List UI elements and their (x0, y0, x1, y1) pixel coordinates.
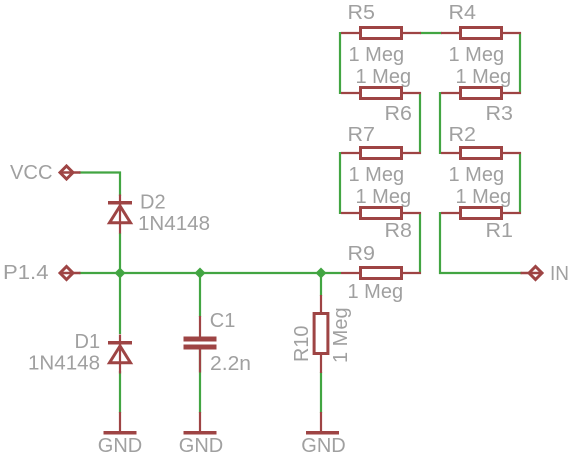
svg-text:GND: GND (301, 435, 345, 457)
svg-text:1 Meg: 1 Meg (356, 186, 412, 208)
svg-text:1 Meg: 1 Meg (456, 66, 512, 88)
svg-text:1 Meg: 1 Meg (348, 281, 404, 303)
svg-text:P1.4: P1.4 (3, 262, 49, 284)
svg-text:GND: GND (98, 435, 142, 457)
svg-text:R5: R5 (348, 2, 376, 24)
svg-text:R6: R6 (385, 103, 413, 125)
svg-text:R4: R4 (449, 2, 477, 24)
svg-text:IN: IN (550, 263, 569, 285)
svg-text:R1: R1 (486, 220, 514, 242)
svg-text:2.2n: 2.2n (210, 353, 251, 375)
svg-text:1 Meg: 1 Meg (356, 66, 412, 88)
svg-text:1N4148: 1N4148 (28, 353, 100, 375)
svg-text:R9: R9 (348, 243, 376, 265)
svg-text:1 Meg: 1 Meg (330, 307, 352, 363)
svg-text:R2: R2 (449, 124, 477, 146)
svg-text:1 Meg: 1 Meg (449, 44, 505, 66)
svg-text:D1: D1 (75, 331, 101, 353)
svg-text:R3: R3 (486, 103, 514, 125)
svg-text:1 Meg: 1 Meg (456, 186, 512, 208)
svg-text:VCC: VCC (10, 162, 53, 184)
svg-text:GND: GND (179, 435, 223, 457)
svg-text:D2: D2 (140, 192, 166, 214)
svg-text:R10: R10 (291, 326, 313, 363)
svg-text:1 Meg: 1 Meg (449, 164, 505, 186)
svg-text:1N4148: 1N4148 (138, 213, 210, 235)
svg-text:R7: R7 (348, 124, 376, 146)
svg-text:C1: C1 (210, 310, 236, 332)
svg-text:1 Meg: 1 Meg (349, 44, 405, 66)
svg-text:1 Meg: 1 Meg (349, 164, 405, 186)
svg-text:R8: R8 (385, 220, 413, 242)
